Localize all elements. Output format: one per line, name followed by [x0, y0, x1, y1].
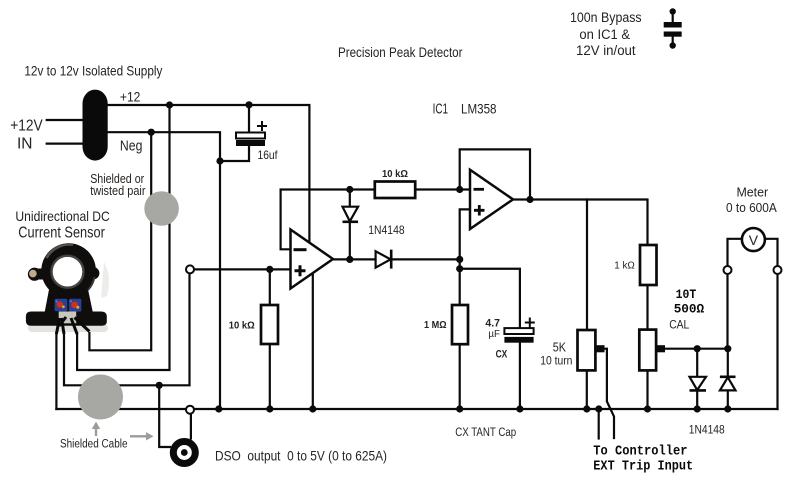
sensor terminal right — [69, 299, 82, 312]
svg-text:16uf: 16uf — [258, 148, 279, 162]
open circle terminals — [186, 265, 782, 413]
wire sensor signal to op1 plus input — [190, 268, 291, 270]
wire meter right leg — [765, 239, 778, 409]
meter V — [742, 228, 765, 251]
wire 16uf cap top lead — [248, 105, 250, 133]
node meter terminal right — [774, 266, 782, 274]
svg-text:+12: +12 — [120, 89, 141, 105]
wire meter left leg — [728, 239, 742, 349]
wire feedback resistor to node A — [416, 188, 470, 190]
node bypass top — [670, 8, 676, 14]
node rail 1M — [456, 405, 463, 412]
node bypass bottom — [670, 42, 676, 48]
svg-text:V: V — [749, 232, 759, 248]
svg-text:Meter: Meter — [736, 184, 768, 199]
svg-text:Shielded Cable: Shielded Cable — [60, 439, 128, 451]
node shield terminal on rail — [186, 406, 194, 414]
wire 10k input resistor bottom — [269, 344, 271, 409]
svg-text:1 kΩ: 1 kΩ — [614, 260, 635, 272]
capacitor 16uf — [236, 121, 278, 162]
node B2 — [456, 265, 463, 272]
resistor R3 1M — [424, 305, 468, 344]
svg-text:on IC1 &: on IC1 & — [579, 27, 630, 42]
wire 16uf cap bottom lead — [220, 146, 249, 161]
node wiper D4 — [724, 345, 731, 352]
svg-text:100n Bypass: 100n Bypass — [570, 10, 642, 25]
node rail CX — [516, 405, 523, 412]
gray arrow right — [130, 435, 146, 437]
resistor R4 1k — [614, 245, 656, 285]
shield blob lower (shielded cable) — [78, 375, 123, 420]
svg-text:LM358: LM358 — [461, 102, 497, 117]
wire Neg to sensor — [89, 132, 151, 350]
wire sensor shield to rail — [55, 318, 57, 409]
wire diode D2 to node B — [391, 258, 460, 260]
svg-text:Current Sensor: Current Sensor — [18, 225, 105, 242]
diode D3 (points down) — [690, 377, 707, 391]
shield blob upper (twisted pair) — [144, 191, 179, 226]
wire sensor signal — [64, 269, 190, 385]
wire op2 feedback — [460, 149, 530, 199]
op-amp U1A — [291, 230, 334, 289]
svg-text:To Controller: To Controller — [593, 445, 687, 460]
diode D2 series 1N4148 (horizontal) — [376, 250, 392, 269]
wire op1 feedback — [281, 190, 375, 250]
svg-text:CX: CX — [496, 348, 508, 360]
svg-text:µF: µF — [488, 328, 500, 340]
wire rail to DSO shield — [190, 414, 192, 439]
svg-text:12V in/out: 12V in/out — [576, 43, 636, 58]
wire clamp diode lower lead — [349, 222, 351, 260]
node rail CAL — [644, 405, 651, 412]
node rail neg — [215, 405, 222, 412]
node +12 cap tap — [245, 101, 252, 108]
svg-text:+12V: +12V — [10, 117, 43, 134]
node op1 output — [346, 256, 353, 263]
sensor ring highlight — [47, 244, 74, 258]
svg-text:EXT Trip Input: EXT Trip Input — [593, 460, 693, 475]
node op2 minus — [456, 186, 463, 193]
resistor R feedback 10k — [375, 168, 415, 198]
node +12 sensor tap — [166, 101, 173, 108]
wire signal to DSO — [159, 385, 170, 447]
potentiometer CAL 500 ohm — [639, 287, 704, 370]
svg-text:IC1: IC1 — [433, 102, 449, 118]
wire clip diode D4 leads — [727, 349, 729, 377]
svg-text:10T: 10T — [676, 287, 697, 302]
node rail controller — [595, 405, 602, 412]
wire ground rail — [56, 408, 777, 410]
svg-text:1N4148: 1N4148 — [368, 225, 404, 237]
svg-text:10 kΩ: 10 kΩ — [382, 168, 408, 180]
sensor base — [26, 312, 107, 326]
resistor R input 10k — [229, 305, 278, 344]
wire Neg — [108, 132, 220, 409]
svg-text:CX TANT Cap: CX TANT Cap — [455, 427, 516, 439]
wire clip diode D3 leads — [696, 349, 698, 377]
DSO connector — [173, 442, 195, 464]
wire node B to CX — [460, 269, 520, 328]
wire 10k input resistor top — [269, 269, 271, 305]
node B — [456, 256, 463, 263]
node wiper D3 — [694, 345, 701, 352]
svg-text:12v to 12v Isolated Supply: 12v to 12v Isolated Supply — [24, 63, 162, 79]
svg-text:Neg: Neg — [120, 137, 142, 154]
wire 1k to CAL pot — [646, 285, 648, 330]
svg-text:1N4148: 1N4148 — [689, 425, 725, 437]
wire +12V IN upper lead — [47, 119, 83, 121]
svg-text:10 turn: 10 turn — [540, 355, 572, 367]
capacitor bypass 100n — [664, 22, 682, 37]
svg-text:Unidirectional DC: Unidirectional DC — [15, 208, 109, 224]
wire +12V IN lower lead — [47, 143, 83, 145]
wire op1 output — [333, 258, 376, 260]
diode D1 clamp (vertical, anode top) — [343, 207, 359, 222]
wire CAL wiper — [665, 348, 728, 350]
node A feedback — [346, 186, 353, 193]
node meter terminal left — [724, 266, 732, 274]
svg-text:CAL: CAL — [669, 319, 690, 331]
sensor ear screw — [29, 270, 37, 278]
node rail D4 — [724, 405, 731, 412]
sensor terminal left — [55, 299, 68, 311]
svg-text:10 kΩ: 10 kΩ — [229, 319, 255, 331]
wire clamp diode branch — [349, 190, 351, 207]
node rail 5K — [583, 405, 590, 412]
wire +12 rail — [108, 105, 310, 242]
svg-text:0 to 600A: 0 to 600A — [726, 200, 777, 215]
node rail D3 — [694, 405, 701, 412]
diode D4 (points up) — [720, 377, 736, 391]
potentiometer 5K 10 turn — [540, 330, 604, 370]
node Neg sensor tap — [148, 129, 155, 136]
sensor photo shadow — [28, 324, 108, 332]
wire output to 5K pot — [586, 200, 588, 331]
wire +12 to sensor — [77, 105, 169, 370]
current sensor — [26, 243, 109, 334]
sensor right ear — [87, 267, 99, 279]
isolated supply module — [83, 90, 108, 161]
wire op2 output — [513, 200, 648, 246]
gray arrow up — [95, 428, 97, 436]
wire CX bottom — [519, 343, 521, 409]
wire op1 V- pin — [312, 273, 314, 409]
svg-text:twisted pair: twisted pair — [90, 184, 145, 198]
svg-text:Precision Peak Detector: Precision Peak Detector — [338, 44, 463, 60]
node rail 10k — [266, 405, 273, 412]
op-amp U1B — [470, 170, 513, 229]
sensor wire stubs — [56, 317, 89, 334]
wire bypass cap top lead — [672, 12, 674, 22]
svg-text:5K: 5K — [553, 341, 567, 355]
svg-text:DSO output 0 to 5V (0 to 625: DSO output 0 to 5V (0 to 625A) — [215, 448, 387, 464]
sensor ring — [41, 243, 96, 298]
wire 5K pot bottom — [586, 370, 588, 409]
svg-text:500Ω: 500Ω — [674, 301, 705, 316]
svg-text:IN: IN — [17, 135, 33, 152]
node op1 plus — [266, 266, 273, 273]
wire 5K wiper to controller with hop — [605, 349, 615, 438]
wire ground stub to controller — [598, 409, 600, 439]
node op2 output feedback — [526, 196, 533, 203]
wire op2 plus input — [460, 209, 470, 305]
node signal DSO tap — [156, 382, 163, 389]
sensor connector label — [59, 312, 76, 324]
wire bypass cap bottom lead — [672, 37, 674, 45]
node sensor output terminal — [186, 265, 194, 273]
node 16uf negative — [216, 157, 223, 164]
capacitor CX 4.7uF — [485, 318, 534, 361]
svg-text:1 MΩ: 1 MΩ — [424, 319, 447, 331]
sensor left ear — [28, 268, 41, 281]
node rail op1 V- — [309, 405, 316, 412]
sensor body — [45, 287, 94, 313]
wire 1M resistor bottom — [459, 344, 461, 409]
wire CAL pot bottom — [646, 370, 648, 409]
